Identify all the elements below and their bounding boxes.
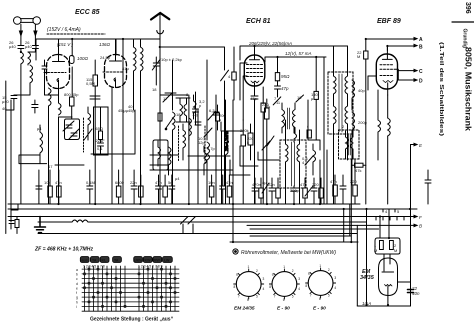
svg-text:100Ω: 100Ω (77, 56, 89, 61)
svg-text:40p: 40p (358, 88, 365, 93)
svg-text:47n: 47n (55, 180, 62, 185)
svg-text:μ4: μ4 (37, 126, 42, 131)
svg-text:1 2 3 4 5 6 7 8 9: 1 2 3 4 5 6 7 8 9 (138, 265, 163, 269)
svg-text:6: 6 (247, 298, 249, 302)
svg-text:KW: KW (145, 258, 152, 262)
svg-text:47p: 47p (281, 86, 289, 91)
svg-text:2: 2 (328, 268, 330, 272)
svg-text:470: 470 (300, 182, 307, 187)
svg-text:12(V), 57 mA: 12(V), 57 mA (285, 51, 312, 56)
svg-text:ZF=4,7MHz: ZF=4,7MHz (225, 131, 229, 151)
svg-text:220p: 220p (290, 188, 300, 193)
svg-text:6800: 6800 (115, 180, 125, 185)
svg-text:8: 8 (269, 285, 271, 289)
svg-text:b: b (76, 273, 78, 277)
svg-text:12p: 12p (192, 112, 199, 117)
svg-text:TA: TA (114, 258, 119, 262)
svg-text:1k: 1k (266, 104, 270, 109)
svg-text:5: 5 (256, 295, 258, 299)
svg-text:μ40: μ40 (9, 44, 17, 49)
svg-text:Gezeichnete Stellung : Gerät: Gezeichnete Stellung : Gerät „aus“ (90, 317, 174, 323)
svg-text:47: 47 (48, 164, 53, 169)
svg-text:h: h (76, 301, 78, 305)
svg-text:47n: 47n (330, 179, 337, 184)
svg-text:206(229)V, 22(56)mA: 206(229)V, 22(56)mA (248, 41, 292, 46)
svg-text:95Ω: 95Ω (281, 74, 290, 79)
svg-text:d: d (76, 282, 78, 286)
svg-text:1: 1 (283, 265, 285, 269)
svg-text:1: 1 (248, 265, 250, 269)
svg-text:6,3: 6,3 (209, 108, 215, 113)
svg-text:3: 3 (263, 277, 265, 281)
svg-text:UKW: UKW (134, 258, 143, 262)
svg-text:8050, Musikschrank: 8050, Musikschrank (464, 47, 474, 131)
svg-text:1: 1 (319, 264, 321, 268)
svg-text:136Ω: 136Ω (99, 42, 111, 47)
svg-text:C: C (419, 69, 423, 75)
svg-text:ZF = 468 KHz + 10,7MHz: ZF = 468 KHz + 10,7MHz (34, 247, 94, 253)
svg-text:B: B (419, 224, 422, 229)
svg-text:0,1: 0,1 (97, 146, 103, 151)
svg-text:(151 V ): (151 V ) (57, 42, 74, 47)
svg-text:(1.Teil des Schaltbildes): (1.Teil des Schaltbildes) (438, 42, 444, 137)
svg-text:47k: 47k (355, 168, 361, 173)
svg-text:A: A (419, 37, 423, 43)
svg-text:7: 7 (310, 294, 312, 298)
svg-text:E - 90: E - 90 (277, 306, 290, 312)
svg-text:45p: 45p (128, 108, 135, 113)
svg-text:200p: 200p (358, 120, 368, 125)
svg-text:47n: 47n (155, 180, 162, 185)
svg-text:18: 18 (176, 112, 181, 117)
svg-text:18: 18 (152, 87, 157, 92)
svg-text:4: 4 (334, 286, 336, 290)
svg-text:3: 3 (334, 276, 336, 280)
svg-text:4,7p: 4,7p (207, 146, 216, 151)
svg-text:M: M (374, 248, 377, 253)
svg-text:3: 3 (298, 277, 300, 281)
svg-text:22n: 22n (130, 180, 137, 185)
svg-text:10: 10 (297, 95, 302, 100)
svg-text:Grundig: Grundig (462, 29, 468, 48)
svg-text:MW: MW (154, 258, 161, 262)
svg-text:f: f (76, 291, 77, 295)
svg-text:220k: 220k (240, 128, 249, 133)
svg-text:M: M (357, 54, 360, 59)
svg-text:2: 2 (256, 269, 258, 273)
svg-text:9: 9 (308, 272, 310, 276)
svg-text:1 2 3 4 5 6 7 8: 1 2 3 4 5 6 7 8 (83, 265, 105, 269)
svg-text:24,5p: 24,5p (100, 55, 111, 60)
svg-text:6: 6 (319, 297, 321, 301)
svg-text:5: 5 (292, 295, 294, 299)
svg-text:10p ± 2,2kp: 10p ± 2,2kp (161, 57, 183, 62)
svg-text:2: 2 (292, 269, 294, 273)
svg-text:g: g (76, 296, 78, 300)
svg-text:μ40: μ40 (2, 99, 10, 104)
svg-text:a: a (76, 268, 78, 272)
svg-text:10n: 10n (44, 180, 51, 185)
svg-text:4μ: 4μ (262, 180, 267, 185)
svg-text:5: 5 (328, 294, 330, 298)
svg-text:B: B (419, 45, 423, 51)
svg-text:396: 396 (464, 2, 471, 14)
svg-text:M: M (394, 248, 397, 253)
svg-text:9: 9 (236, 273, 238, 277)
svg-text:8: 8 (305, 284, 307, 288)
svg-text:Röhrenvoltmeter, Meßwerte bei: Röhrenvoltmeter, Meßwerte bei MW(UKW) (241, 250, 336, 256)
svg-text:41μ: 41μ (122, 66, 129, 71)
svg-text:0,5M: 0,5M (86, 81, 95, 86)
svg-text:40n: 40n (412, 291, 420, 296)
svg-text:7: 7 (274, 295, 276, 299)
svg-text:17: 17 (163, 96, 168, 101)
svg-text:KL: KL (102, 258, 108, 262)
svg-text:1mA: 1mA (362, 301, 371, 306)
svg-text:c: c (76, 277, 78, 281)
svg-text:LW: LW (164, 258, 170, 262)
svg-text:10n: 10n (208, 180, 215, 185)
svg-text:65Ω: 65Ω (96, 126, 103, 131)
svg-text:(152V / 6,4mA): (152V / 6,4mA) (47, 27, 81, 33)
svg-text:μ40: μ40 (25, 44, 33, 49)
svg-text:220: 220 (312, 182, 319, 187)
svg-text:34/35: 34/35 (360, 275, 375, 281)
svg-text:7: 7 (238, 295, 240, 299)
svg-text:aus: aus (82, 258, 88, 262)
svg-text:6: 6 (283, 298, 285, 302)
svg-text:40: 40 (2, 106, 7, 111)
svg-text:e: e (76, 287, 78, 291)
svg-text:22n: 22n (268, 182, 275, 187)
svg-text:k: k (247, 140, 249, 145)
svg-text:EBF 89: EBF 89 (377, 18, 401, 25)
svg-text:EM 24/35: EM 24/35 (234, 306, 255, 312)
svg-text:470n: 470n (252, 182, 261, 187)
svg-text:22μF: 22μF (96, 138, 106, 143)
svg-text:47n: 47n (226, 180, 233, 185)
svg-text:12p: 12p (198, 140, 205, 145)
svg-text:800 45p: 800 45p (64, 92, 79, 97)
svg-text:TA: TA (92, 258, 97, 262)
svg-text:8: 8 (234, 285, 236, 289)
svg-text:5n: 5n (168, 180, 172, 185)
svg-text:ECC 85: ECC 85 (75, 9, 100, 16)
svg-text:9: 9 (272, 273, 274, 277)
svg-text:ECH 81: ECH 81 (246, 18, 271, 25)
svg-text:0,1M: 0,1M (86, 180, 95, 185)
svg-text:220: 220 (350, 179, 357, 184)
svg-text:F: F (419, 215, 422, 220)
svg-text:E - 90: E - 90 (313, 306, 326, 312)
svg-text:μ4: μ4 (175, 176, 180, 181)
svg-text:D: D (419, 79, 423, 85)
svg-text:4: 4 (298, 287, 300, 291)
svg-text:4: 4 (263, 287, 265, 291)
svg-text:47p: 47p (250, 96, 257, 101)
